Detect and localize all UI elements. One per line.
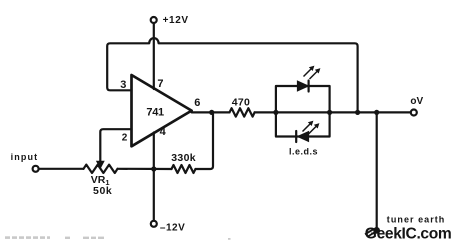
LED D2 cathode bar — [295, 131, 297, 142]
wire: +12V vertical to pin 7 — [153, 23, 155, 89]
wire: 330k right end up to output node — [196, 112, 214, 169]
potentiometer wiper arrow VR1 — [97, 161, 104, 168]
LED D2 (bottom, pointing left) — [298, 132, 309, 142]
resistor 470 zigzag — [230, 108, 255, 116]
junction: LED block left — [273, 110, 278, 115]
faint cropped text remnants bottom-left — [5, 236, 231, 240]
svg-text:330k: 330k — [171, 152, 196, 164]
svg-text:3: 3 — [120, 79, 126, 91]
wire: 470 to LED block — [255, 111, 276, 113]
svg-text:2: 2 — [122, 132, 128, 143]
resistor VR1 zigzag — [84, 165, 118, 173]
LED D1 (top, pointing right) — [297, 81, 308, 91]
svg-text:741: 741 — [146, 106, 164, 118]
svg-text:4: 4 — [160, 126, 167, 138]
wire: tuner earth vertical — [376, 112, 378, 228]
earth symbol strokes — [365, 229, 376, 236]
junction: output node — [209, 110, 214, 115]
svg-text:–12V: –12V — [160, 222, 185, 233]
resistor 330k zigzag — [172, 165, 196, 173]
LED D1 emission arrows — [304, 66, 320, 79]
svg-text:GeekIC.com: GeekIC.com — [365, 226, 452, 243]
wire: LED block middle through-line — [276, 111, 330, 113]
wire: pin3 stub, left riser, top rail with hop, right riser down to 0V rail — [107, 38, 357, 112]
LED D1 cathode bar — [308, 81, 310, 92]
wire: VR1 to 330k — [118, 168, 172, 170]
terminal input — [33, 166, 39, 172]
svg-text:50k: 50k — [93, 185, 112, 197]
earth symbol blob — [373, 227, 380, 234]
svg-text:tuner earth: tuner earth — [387, 215, 446, 225]
terminal 0V — [411, 110, 417, 116]
svg-text:7: 7 — [157, 78, 163, 90]
wire: pin4 vertical down to -12V — [153, 133, 155, 221]
svg-text:+12V: +12V — [163, 15, 189, 26]
svg-text:6: 6 — [194, 97, 200, 109]
svg-text:470: 470 — [232, 96, 250, 108]
op-amp U1 741 triangle — [132, 75, 192, 146]
svg-text:oV: oV — [410, 96, 423, 107]
terminal -12V — [151, 221, 157, 227]
wire: LED block frame — [276, 86, 330, 137]
junction: top rail meets 0V rail — [355, 110, 360, 115]
wire: input terminal to VR1 — [39, 168, 84, 170]
wire: LED block to 0V terminal — [330, 111, 411, 113]
terminal +12V — [151, 17, 157, 23]
wire: op-amp output to LED block — [192, 111, 230, 113]
LED D2 emission arrows — [303, 121, 319, 134]
svg-text:input: input — [11, 152, 39, 162]
svg-text:l.e.d.s: l.e.d.s — [289, 146, 318, 156]
junction: LED block right — [327, 110, 332, 115]
wire: pin2 stub down to VR1 wiper — [100, 129, 131, 161]
junction: tuner earth tap — [374, 110, 379, 115]
junction: VR1/330k wire crossing pin4 line — [151, 166, 156, 171]
